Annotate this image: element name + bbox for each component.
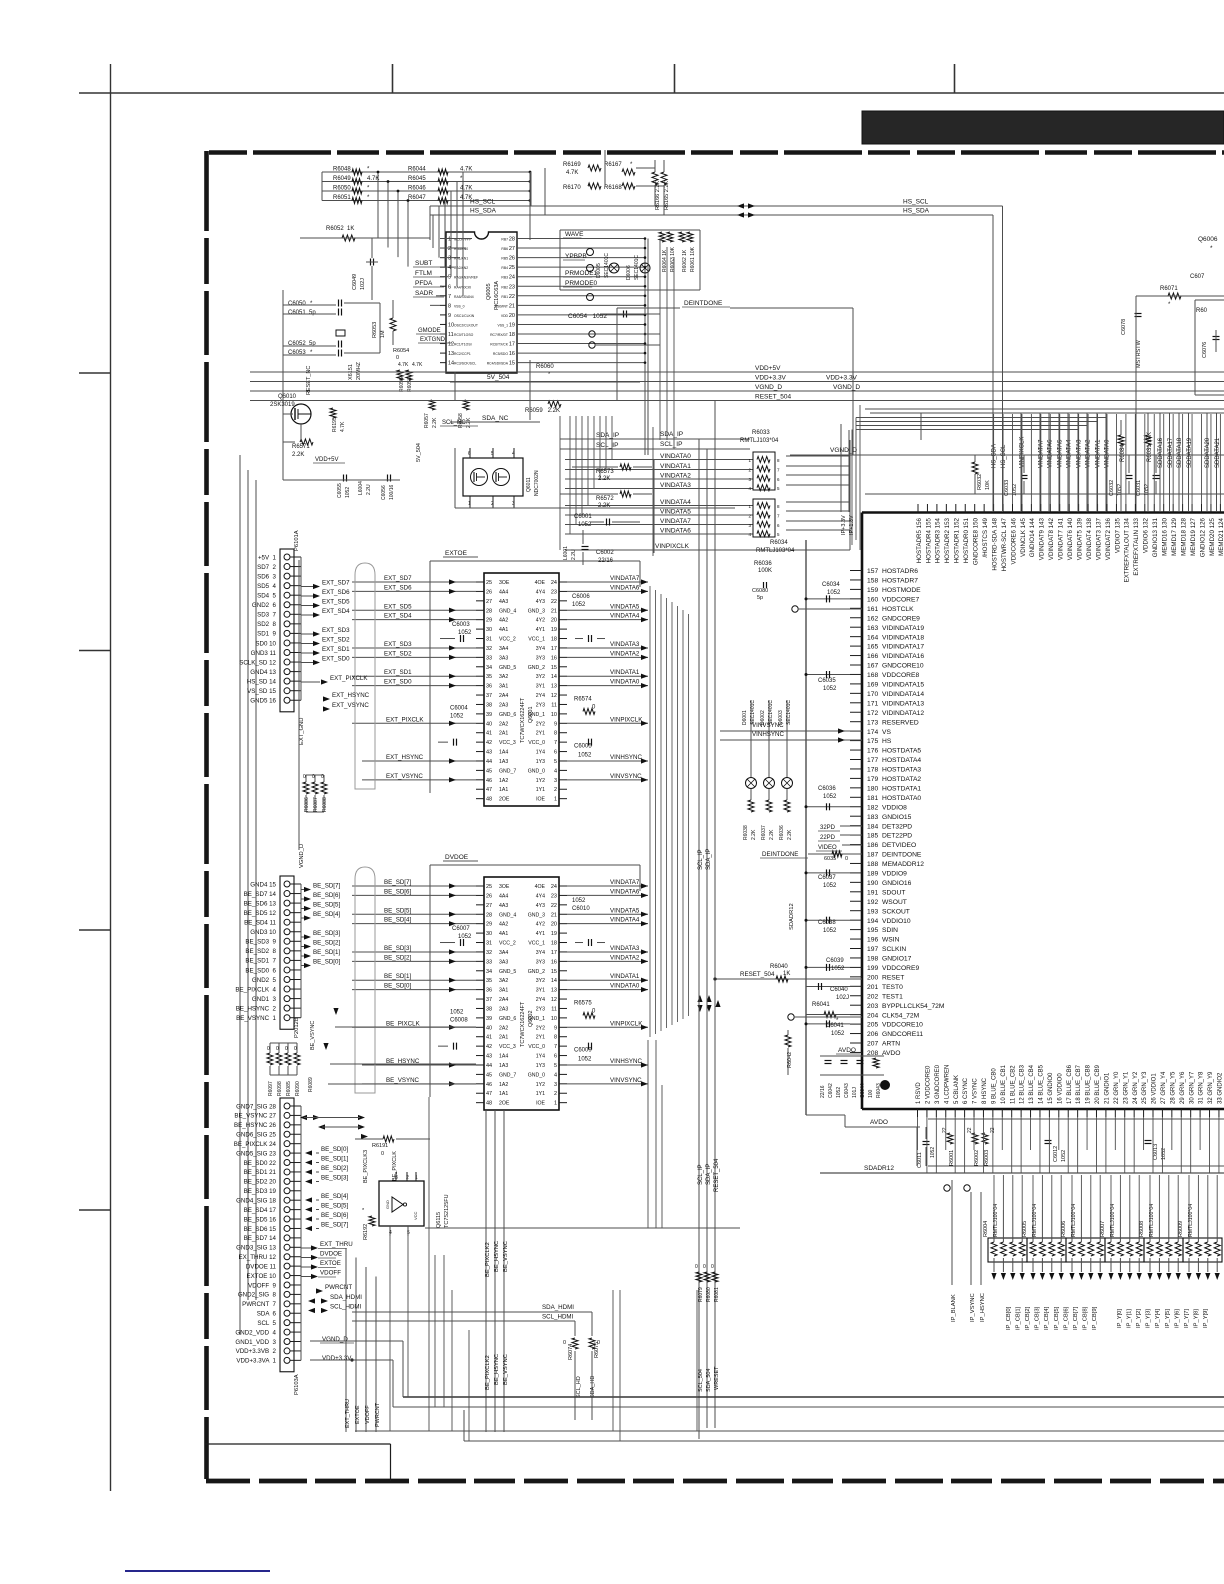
svg-text:2.2K: 2.2K [598,476,610,482]
svg-text:29: 29 [486,922,492,928]
svg-text:164: 164 [867,634,878,641]
svg-text:182: 182 [867,804,878,811]
svg-text:SD5 4: SD5 4 [257,583,276,590]
svg-text:BE_SD[0]: BE_SD[0] [384,983,411,990]
svg-text:11 BLUE_CB2: 11 BLUE_CB2 [1010,1065,1016,1104]
svg-text:1052: 1052 [823,686,837,692]
svg-text:R6060: R6060 [536,364,554,370]
svg-text:SD3 7: SD3 7 [257,612,276,619]
svg-text:R6049: R6049 [333,176,351,182]
svg-text:R6036: R6036 [754,561,772,567]
svg-text:BE_SD[7]: BE_SD[7] [321,1222,348,1229]
svg-text:2Y4: 2Y4 [536,693,545,699]
svg-text:SDA_IP: SDA_IP [660,431,683,438]
svg-text:0: 0 [276,1046,279,1052]
svg-text:SCL 5: SCL 5 [257,1320,276,1327]
svg-text:R6051: R6051 [333,195,351,201]
svg-text:0: 0 [563,1340,566,1346]
svg-text:WAVE: WAVE [565,231,584,238]
svg-text:2Y3: 2Y3 [536,1006,545,1012]
svg-text:VIDINDATA12: VIDINDATA12 [882,710,924,717]
svg-text:SDA 6: SDA 6 [257,1311,277,1318]
svg-text:C6038: C6038 [818,920,836,926]
svg-text:R6033: R6033 [752,430,770,436]
svg-text:4.7K: 4.7K [398,362,409,368]
svg-text:TC7WCX16224FT: TC7WCX16224FT [520,1001,526,1047]
svg-text:BE_SD[1]: BE_SD[1] [384,973,411,980]
svg-text:SD6 3: SD6 3 [257,573,276,580]
svg-text:HOSTADR6: HOSTADR6 [882,568,918,575]
svg-text:BE_SD[2]: BE_SD[2] [313,940,340,947]
svg-text:184: 184 [867,823,878,830]
svg-text:R60: R60 [1196,308,1208,314]
svg-text:101J: 101J [852,1087,858,1098]
svg-text:1: 1 [554,1101,557,1107]
svg-text:GNDIO12 126: GNDIO12 126 [1199,517,1206,557]
svg-text:VDDIO10: VDDIO10 [882,918,911,925]
svg-text:3Y2: 3Y2 [536,674,545,680]
svg-text:C6076: C6076 [1202,342,1208,358]
svg-text:VSS_1: VSS_1 [497,323,508,327]
svg-text:0: 0 [703,1264,706,1270]
svg-text:IP_Y[2]: IP_Y[2] [1136,1309,1142,1328]
svg-text:27: 27 [509,246,515,252]
svg-text:L6001: L6001 [563,546,569,560]
svg-text:VINDATA4: VINDATA4 [660,499,691,506]
svg-text:1052: 1052 [572,602,586,608]
svg-text:19: 19 [551,627,557,633]
svg-text:1A2: 1A2 [499,778,508,784]
svg-text:R6008: R6008 [1139,1221,1145,1237]
svg-text:C6039: C6039 [826,958,844,964]
svg-text:VGND_D: VGND_D [833,384,860,391]
svg-text:VDINDAT9 143: VDINDAT9 143 [1039,517,1046,560]
svg-text:R6061 10K: R6061 10K [690,246,696,272]
svg-text:20: 20 [551,922,557,928]
svg-text:13: 13 [551,684,557,690]
svg-text:VCC_0: VCC_0 [528,1044,545,1050]
svg-text:28 GRN_Y5: 28 GRN_Y5 [1170,1071,1176,1104]
svg-text:VINDATA2: VINDATA2 [660,473,691,480]
svg-text:R6081: R6081 [714,1287,720,1302]
svg-text:HOSTADR0 151: HOSTADR0 151 [963,517,970,563]
svg-text:9: 9 [554,1025,557,1031]
svg-text:GNDCORE11: GNDCORE11 [882,1031,923,1038]
svg-text:181: 181 [867,795,878,802]
svg-text:R6037: R6037 [761,825,767,840]
svg-text:R6071: R6071 [1160,286,1178,292]
svg-text:C6003: C6003 [452,622,470,628]
svg-text:+5V 1: +5V 1 [258,554,277,561]
svg-text:VDD+5V: VDD+5V [755,365,781,372]
svg-text:12: 12 [551,693,557,699]
svg-text:4.7K: 4.7K [367,176,379,182]
svg-text:P6103A: P6103A [294,1374,300,1395]
svg-text:VINDATA5: VINDATA5 [660,509,691,516]
svg-text:2.2K: 2.2K [769,829,775,840]
svg-text:15: 15 [551,665,557,671]
svg-text:BE_SD[5]: BE_SD[5] [321,1203,348,1210]
svg-text:174: 174 [867,729,878,736]
svg-text:BE_VSYNC: BE_VSYNC [503,1241,509,1272]
svg-text:GND3 10: GND3 10 [250,929,276,936]
svg-text:46: 46 [486,1082,492,1088]
svg-text:C6049: C6049 [352,274,358,290]
svg-text:DVDOE: DVDOE [445,854,469,861]
svg-text:8: 8 [554,731,557,737]
svg-text:VIDEO: VIDEO [818,845,837,851]
svg-text:C6051 5p: C6051 5p [288,310,316,316]
svg-text:R6009: R6009 [1178,1221,1184,1237]
svg-text:GND5 16: GND5 16 [250,698,276,705]
svg-text:EXT_SD7: EXT_SD7 [322,580,350,587]
svg-text:IP_Y[8]: IP_Y[8] [1193,1309,1199,1328]
svg-text:EXT_SD1: EXT_SD1 [322,646,350,653]
svg-text:3Y1: 3Y1 [536,684,545,690]
svg-text:1052: 1052 [823,883,837,889]
svg-text:GND_5: GND_5 [499,969,516,975]
svg-text:26: 26 [486,893,492,899]
svg-text:SCLK_SD 12: SCLK_SD 12 [239,659,276,666]
svg-text:4Y2: 4Y2 [536,618,545,624]
svg-text:170: 170 [867,691,878,698]
svg-text:186: 186 [867,842,878,849]
svg-text:VDD+3.3VB 2: VDD+3.3VB 2 [236,1348,277,1355]
svg-text:SEC1401C: SEC1401C [634,255,640,280]
svg-text:1A2: 1A2 [499,1082,508,1088]
svg-text:34: 34 [486,665,492,671]
svg-text:1052: 1052 [450,713,464,719]
svg-text:GND1 3: GND1 3 [252,996,277,1003]
svg-text:EXT_VSYNC: EXT_VSYNC [386,773,423,780]
svg-text:0: 0 [381,1151,384,1157]
svg-text:IP_Y[6]: IP_Y[6] [1174,1309,1180,1328]
svg-text:45: 45 [486,768,492,774]
svg-text:21: 21 [509,303,515,309]
svg-text:HS_SCL: HS_SCL [470,199,496,206]
svg-text:RB1: RB1 [501,295,508,299]
svg-text:R6044: R6044 [408,167,426,173]
svg-text:BE_SD3 19: BE_SD3 19 [244,1188,277,1195]
svg-text:C6012: C6012 [1053,1146,1059,1162]
svg-text:GNDCORE9: GNDCORE9 [882,615,920,622]
svg-text:IP_VSYNC: IP_VSYNC [970,1293,976,1322]
svg-text:SDA_HDMI: SDA_HDMI [542,1304,574,1311]
svg-text:32: 32 [486,950,492,956]
svg-text:GND_6: GND_6 [499,1016,516,1022]
svg-text:VDD: VDD [501,314,509,318]
svg-text:IP_Y[3]: IP_Y[3] [1146,1309,1152,1328]
svg-text:IP_CB[0]: IP_CB[0] [1006,1306,1012,1330]
svg-text:BE_SD6 13: BE_SD6 13 [244,900,277,907]
svg-text:RC3/SCK/SCL: RC3/SCK/SCL [454,362,476,366]
svg-text:IP_Y[5]: IP_Y[5] [1165,1309,1171,1328]
svg-text:198: 198 [867,956,878,963]
svg-text:VDINDAT2 136: VDINDAT2 136 [1105,517,1112,560]
svg-text:6: 6 [554,750,557,756]
svg-text:4Y3: 4Y3 [536,903,545,909]
svg-text:BE_PIXCLK 24: BE_PIXCLK 24 [234,1141,277,1148]
svg-text:BE_PIXCLK: BE_PIXCLK [386,1020,421,1027]
svg-text:22: 22 [942,1127,948,1133]
svg-text:100K: 100K [758,568,772,574]
svg-text:PWRCNT: PWRCNT [325,1284,352,1291]
svg-text:HS: HS [882,738,892,745]
svg-text:EXT_THRU: EXT_THRU [320,1241,353,1248]
svg-text:BE_HSYNC: BE_HSYNC [494,1241,500,1272]
svg-text:HOSTDATA4: HOSTDATA4 [882,757,921,764]
svg-text:1052: 1052 [578,753,592,759]
svg-text:2A1: 2A1 [499,731,508,737]
svg-text:19 BLUE_CB8: 19 BLUE_CB8 [1086,1064,1092,1104]
svg-text:R6573: R6573 [596,469,614,475]
svg-text:EXT_VSYNC: EXT_VSYNC [332,702,369,709]
svg-text:39: 39 [486,1016,492,1022]
svg-text:R6087: R6087 [313,797,319,812]
svg-text:VINDATA1: VINDATA1 [610,973,640,980]
svg-text:0: 0 [396,355,399,361]
svg-text:RA2/AN2: RA2/AN2 [454,266,468,270]
svg-text:DEINTDONE: DEINTDONE [882,852,922,859]
svg-text:7: 7 [554,740,557,746]
svg-text:1Y1: 1Y1 [536,1091,545,1097]
svg-text:VGND_D: VGND_D [322,1336,348,1343]
svg-text:11: 11 [551,702,557,708]
svg-text:EX_THRU 12: EX_THRU 12 [239,1254,277,1261]
svg-text:R6053: R6053 [372,322,378,338]
svg-text:3A2: 3A2 [499,674,508,680]
svg-text:2OE: 2OE [499,797,510,803]
svg-text:1 RSVD: 1 RSVD [916,1082,922,1104]
svg-text:VINDATA3: VINDATA3 [610,945,640,952]
svg-text:3A3: 3A3 [499,959,508,965]
svg-text:HOSTMODE: HOSTMODE [882,587,921,594]
svg-text:WSOUT: WSOUT [882,899,907,906]
svg-text:AVDO: AVDO [882,1050,900,1057]
svg-text:3A1: 3A1 [499,988,508,994]
svg-text:IP+3.3V: IP+3.3V [841,515,847,535]
svg-text:VINHSYNC: VINHSYNC [610,1058,643,1065]
svg-text:VDDCORE9: VDDCORE9 [882,965,919,972]
svg-text:1Y2: 1Y2 [536,1082,545,1088]
svg-text:RC2/CCP1: RC2/CCP1 [454,352,471,356]
svg-text:28: 28 [486,608,492,614]
svg-text:BE_SD[1]: BE_SD[1] [321,1156,348,1163]
svg-text:GNDCORE8 150: GNDCORE8 150 [973,517,980,565]
svg-text:43: 43 [486,750,492,756]
svg-text:14 BLUE_CB5: 14 BLUE_CB5 [1039,1064,1045,1104]
svg-text:BE_VSYNC 27: BE_VSYNC 27 [234,1113,276,1120]
svg-text:0: 0 [695,1264,698,1270]
svg-text:RB6: RB6 [501,247,508,251]
svg-text:161: 161 [867,606,878,613]
svg-text:2Y2: 2Y2 [536,1025,545,1031]
svg-text:VINHSYNC: VINHSYNC [752,731,785,738]
svg-text:176: 176 [867,748,878,755]
svg-text:P2012B: P2012B [294,1017,300,1038]
svg-text:1052: 1052 [1161,1148,1167,1160]
svg-text:38: 38 [486,1006,492,1012]
svg-text:102J: 102J [836,995,849,1001]
svg-text:DVDOE: DVDOE [320,1251,342,1258]
svg-text:MEMD17 129: MEMD17 129 [1171,517,1178,555]
svg-text:VDD+5V: VDD+5V [315,457,339,463]
svg-text:100/16: 100/16 [389,484,395,500]
svg-text:31: 31 [486,637,492,643]
svg-text:GND3_SIG 13: GND3_SIG 13 [236,1245,276,1252]
svg-text:IP_Y[1]: IP_Y[1] [1127,1309,1133,1328]
svg-text:23 GRN_Y1: 23 GRN_Y1 [1123,1071,1129,1104]
svg-text:VINDATA1: VINDATA1 [1095,439,1101,468]
svg-text:9: 9 [448,313,451,319]
svg-text:C6004: C6004 [450,705,468,711]
svg-text:IP_CB[8]: IP_CB[8] [1082,1306,1088,1330]
svg-text:42: 42 [486,1044,492,1050]
svg-text:10: 10 [551,1016,557,1022]
svg-text:1Y4: 1Y4 [536,1054,545,1060]
svg-text:IP_Y[4]: IP_Y[4] [1155,1309,1161,1328]
svg-text:SCL_NC: SCL_NC [442,420,466,426]
svg-text:2A3: 2A3 [499,1006,508,1012]
svg-text:HS_SCL: HS_SCL [903,199,929,206]
svg-text:BE_SD[4]: BE_SD[4] [321,1193,348,1200]
svg-text:VDINDAT3 137: VDINDAT3 137 [1095,517,1102,560]
svg-text:3A2: 3A2 [499,978,508,984]
svg-text:21 GNDIO1: 21 GNDIO1 [1105,1072,1111,1104]
svg-text:R6089: R6089 [308,1077,314,1092]
svg-text:199: 199 [867,965,878,972]
svg-text:EXT_SD7: EXT_SD7 [384,575,412,582]
svg-text:RMTLJ103*04: RMTLJ103*04 [740,438,779,444]
svg-text:EXTREFXTALIN 133: EXTREFXTALIN 133 [1133,517,1140,575]
svg-text:5V_504: 5V_504 [487,374,510,381]
svg-text:16: 16 [551,655,557,661]
svg-text:10 BLUE_CB1: 10 BLUE_CB1 [1001,1064,1007,1104]
svg-text:BE_PIXCLK2: BE_PIXCLK2 [485,1242,491,1277]
svg-text:22 GRN_Y0: 22 GRN_Y0 [1114,1071,1120,1104]
svg-text:IP_Y[9]: IP_Y[9] [1203,1309,1209,1328]
svg-text:22PD: 22PD [820,835,836,841]
svg-text:167: 167 [867,663,878,670]
svg-text:1A4: 1A4 [499,750,508,756]
svg-text:R6057: R6057 [424,413,430,428]
svg-text:VINDATA6: VINDATA6 [660,528,691,535]
svg-text:SDA_NC: SDA_NC [482,415,509,422]
svg-text:206: 206 [867,1031,878,1038]
svg-text:C6056: C6056 [381,485,387,500]
svg-text:BE_HSYNC 2: BE_HSYNC 2 [236,1005,277,1012]
svg-text:R6007: R6007 [1100,1221,1106,1237]
svg-text:VINDATA1: VINDATA1 [660,463,691,470]
svg-text:WSIN: WSIN [882,937,900,944]
svg-text:185: 185 [867,833,878,840]
svg-text:VDDIO7 135: VDDIO7 135 [1114,517,1121,553]
svg-text:39: 39 [486,712,492,718]
svg-text:6 CSYNC: 6 CSYNC [963,1077,969,1104]
svg-text:BE_VSYNC: BE_VSYNC [503,1354,509,1385]
svg-text:VINDATA3: VINDATA3 [660,482,691,489]
svg-text:40: 40 [486,1025,492,1031]
svg-text:EXT_HSYNC: EXT_HSYNC [332,692,370,699]
svg-text:3Y4: 3Y4 [536,950,545,956]
svg-text:4.7K: 4.7K [412,362,423,368]
svg-text:6: 6 [448,284,451,290]
svg-text:GND_4: GND_4 [499,912,516,918]
svg-text:PFDA: PFDA [415,280,433,287]
svg-text:EXT_SD4: EXT_SD4 [322,608,350,615]
svg-text:R6191: R6191 [372,1143,388,1149]
svg-text:ARTN: ARTN [882,1041,900,1048]
svg-text:BE_HSYNC: BE_HSYNC [494,1354,500,1385]
svg-text:BE_SD[3]: BE_SD[3] [321,1175,348,1182]
svg-text:32PD: 32PD [820,825,836,831]
svg-text:VCC: VCC [413,1211,418,1220]
svg-text:GNDIO17: GNDIO17 [882,956,912,963]
svg-text:FTLM: FTLM [415,270,432,277]
svg-text:R6169: R6169 [563,162,581,168]
svg-text:BE_SD[4]: BE_SD[4] [313,911,340,918]
svg-text:Q6006: Q6006 [1198,236,1218,243]
svg-text:IP_CB[2]: IP_CB[2] [1025,1306,1031,1330]
svg-text:4Y3: 4Y3 [536,599,545,605]
svg-text:18 BLUE_CB7: 18 BLUE_CB7 [1076,1064,1082,1104]
svg-text:VIDINDATA17: VIDINDATA17 [882,644,924,651]
svg-text:3Y4: 3Y4 [536,646,545,652]
svg-text:BE_PIXCLK 4: BE_PIXCLK 4 [235,986,276,993]
svg-text:12: 12 [551,997,557,1003]
svg-text:17: 17 [509,342,515,348]
svg-text:VDD+3.3V: VDD+3.3V [826,375,858,382]
svg-text:4OE: 4OE [535,580,546,586]
svg-text:GND_1: GND_1 [528,1016,545,1022]
svg-text:19: 19 [551,931,557,937]
svg-text:18: 18 [551,637,557,643]
svg-text:GND_0: GND_0 [528,1072,545,1078]
svg-text:R6088: R6088 [322,797,328,812]
svg-text:193: 193 [867,908,878,915]
svg-text:TC7WCX16224FT: TC7WCX16224FT [520,697,526,743]
svg-text:HOSTDATA0: HOSTDATA0 [882,795,921,802]
svg-text:202: 202 [867,993,878,1000]
svg-text:BE_SD[5]: BE_SD[5] [313,902,340,909]
svg-text:BE_HSYNC 26: BE_HSYNC 26 [234,1122,277,1129]
svg-text:VINDATA5: VINDATA5 [610,907,640,914]
svg-text:11: 11 [448,332,454,338]
svg-text:37: 37 [486,997,492,1003]
svg-text:AVDO: AVDO [870,1119,888,1126]
svg-text:MEMADDR12: MEMADDR12 [882,861,924,868]
svg-text:C6050: C6050 [288,301,306,307]
svg-text:VDDCORE10: VDDCORE10 [882,1022,923,1029]
svg-text:EXT_SD5: EXT_SD5 [384,603,412,610]
svg-text:BE_SD1 21: BE_SD1 21 [244,1169,277,1176]
svg-text:188: 188 [867,861,878,868]
svg-text:165: 165 [867,644,878,651]
svg-text:200: 200 [867,974,878,981]
svg-text:17 BLUE_CB6: 17 BLUE_CB6 [1067,1064,1073,1104]
svg-text:BE_PIXCLK3: BE_PIXCLK3 [363,1150,369,1183]
svg-text:GNDCORE10: GNDCORE10 [882,663,924,670]
svg-text:177: 177 [867,757,878,764]
svg-text:VINDATA7: VINDATA7 [660,518,691,525]
svg-text:RB4: RB4 [501,266,508,270]
svg-text:BE_SD5 12: BE_SD5 12 [244,910,277,917]
svg-text:26: 26 [509,256,515,262]
svg-text:MEMD20 125: MEMD20 125 [1209,517,1216,555]
svg-text:33 GNDIO2: 33 GNDIO2 [1218,1072,1224,1104]
svg-text:47: 47 [486,1091,492,1097]
svg-text:15: 15 [509,361,515,367]
